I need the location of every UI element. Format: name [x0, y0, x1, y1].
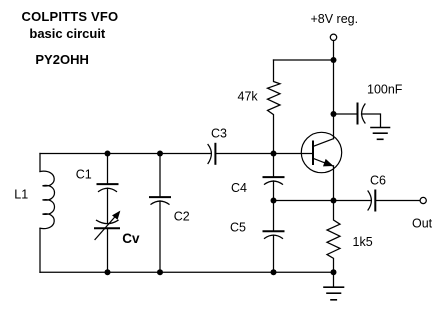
resistor R 1k5: [327, 201, 340, 273]
junction C1 top: [105, 151, 111, 157]
junction base node: [271, 151, 277, 157]
wire C2 branch top: [159, 154, 161, 197]
capacitor Cv variable: [95, 212, 120, 240]
svg-text:C6: C6: [370, 174, 386, 188]
wire left rail with inductor lead top: [39, 154, 41, 172]
wire C5 bottom: [273, 235, 275, 272]
wire +8V junction to 47k top: [274, 59, 334, 61]
inductor L1: [40, 171, 55, 228]
wire C4 to mid junction: [273, 181, 275, 201]
wire +8V rail down to collector: [333, 60, 335, 139]
wire emitter down: [333, 166, 335, 201]
junction +8V rail top: [331, 57, 337, 63]
svg-text:COLPITTS VFO: COLPITTS VFO: [22, 9, 119, 24]
junction 100nF tap: [331, 111, 337, 117]
capacitor C3: [208, 144, 215, 164]
capacitor 100nF: [334, 104, 381, 128]
junction Cv bottom: [105, 269, 111, 275]
wire mid junction to emitter: [274, 200, 334, 202]
wire C1 branch top: [107, 154, 109, 184]
transistor Q1: [301, 132, 341, 172]
junction C2 bottom: [157, 269, 163, 275]
svg-text:Cv: Cv: [122, 231, 140, 246]
svg-text:47k: 47k: [238, 90, 259, 104]
svg-text:C3: C3: [211, 126, 227, 140]
svg-text:C5: C5: [230, 220, 246, 234]
wire C5 branch top: [273, 201, 275, 231]
wire C4 branch top: [273, 154, 275, 177]
wire bottom rail: [40, 271, 334, 273]
junction emitter node: [331, 198, 337, 204]
svg-text:Out: Out: [412, 217, 433, 231]
svg-text:C2: C2: [174, 210, 190, 224]
wire top rail tank to C3: [40, 153, 211, 155]
svg-text:+8V reg.: +8V reg.: [311, 12, 359, 26]
junction C5 bottom: [271, 269, 277, 275]
resistor R 47k: [268, 60, 281, 154]
capacitor C4: [264, 177, 284, 184]
wire Cv bottom: [107, 229, 109, 272]
svg-text:1k5: 1k5: [353, 235, 373, 249]
terminal +8V open circle: [330, 34, 336, 40]
svg-text:basic circuit: basic circuit: [29, 26, 106, 41]
svg-text:L1: L1: [14, 188, 28, 202]
ground for 100nF: [371, 128, 390, 140]
wire emitter to C6: [334, 200, 372, 202]
junction C2 top: [157, 151, 163, 157]
ground main: [324, 287, 344, 300]
capacitor C5: [264, 231, 284, 238]
svg-text:100nF: 100nF: [367, 83, 403, 97]
wire C2 bottom: [159, 201, 161, 272]
wire C1 to Cv: [107, 188, 109, 223]
wire +8V terminal to junction: [333, 41, 335, 61]
capacitor C2: [150, 197, 170, 204]
wire left rail bottom: [39, 228, 41, 272]
svg-text:PY2OHH: PY2OHH: [35, 52, 88, 67]
wire C6 to Out: [376, 200, 420, 202]
svg-text:C4: C4: [231, 181, 247, 195]
wire C3 to base junction: [216, 153, 313, 155]
wire to ground: [333, 272, 335, 287]
terminal Out open circle: [420, 197, 426, 203]
svg-text:C1: C1: [76, 168, 92, 182]
junction ground node: [331, 269, 337, 275]
capacitor C1: [98, 184, 118, 191]
capacitor C6: [368, 191, 375, 211]
junction C4 C5 mid: [271, 198, 277, 204]
